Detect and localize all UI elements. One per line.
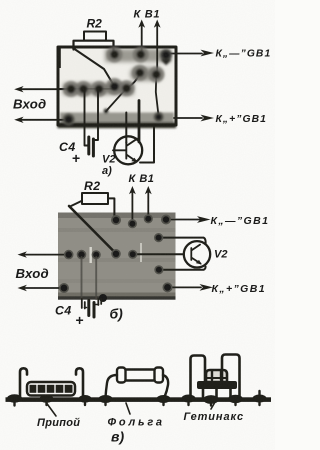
wire pad D to pad G — [127, 73, 140, 89]
R2 body (B) — [82, 193, 108, 204]
component 3 left staple — [191, 356, 206, 398]
arrow К В1 #2 (A) — [156, 24, 158, 75]
resistor R2 body — [84, 32, 106, 41]
Вход arrow top (A) — [20, 88, 72, 90]
R2 leads (B) — [70, 201, 83, 207]
board B bottom dark band — [58, 293, 176, 300]
foot pad small — [104, 109, 109, 114]
V2 circle (A) — [114, 136, 142, 164]
V2 symbol inside (A) — [113, 139, 137, 162]
component 2 left lead — [106, 375, 118, 397]
arrow К В1 #1 (A) — [141, 24, 143, 55]
board B texture stripes — [58, 213, 176, 219]
arrow К„+"GB1 (A) — [174, 117, 202, 119]
C4 leads (A) — [85, 91, 99, 146]
pads bottom edge — [63, 114, 75, 126]
V2 circle (B) — [184, 241, 210, 267]
resistor R2 leads — [74, 41, 114, 53]
V2 base wire (B) — [133, 253, 184, 255]
V2 emitter bracket (A) — [140, 126, 154, 163]
wire kinked from top edge to pad F — [73, 48, 115, 87]
pads middle row — [63, 81, 79, 97]
pads A top row — [63, 47, 172, 126]
board A top pad halo band — [105, 49, 171, 62]
component 3 leads — [203, 389, 231, 397]
board B gray body — [58, 213, 176, 300]
lead ticks below — [15, 401, 260, 406]
component 3 dome — [206, 370, 227, 382]
Вход arrow bottom (B) — [23, 287, 64, 289]
board A left edge thick top — [57, 46, 61, 68]
board A bottom edge — [58, 123, 177, 128]
V2 symbol inside (B) — [191, 245, 200, 264]
component 3 right staple — [222, 355, 240, 398]
arrow К„—"GB1 (B) — [166, 219, 203, 221]
board A halo around pads D,E — [130, 67, 163, 81]
V2 emitter wire (B) — [159, 267, 206, 270]
R2 right lead (B) — [108, 198, 114, 219]
V2 leads up (A) — [125, 113, 127, 144]
component 1 right lead — [76, 368, 83, 397]
Вход arrow top (B) — [23, 254, 69, 256]
arrow К„—"GB1 (A) — [168, 53, 202, 55]
pad T3 + dark blob — [160, 49, 172, 61]
pads D,E — [132, 65, 148, 81]
board A outline — [58, 47, 176, 125]
pads (B) — [111, 215, 121, 225]
component 2: resistor body — [124, 370, 156, 381]
Вход arrow bottom (A) — [20, 119, 69, 121]
arrow К„+"GB1 (B) — [168, 286, 202, 288]
component 2 right lead — [163, 375, 168, 397]
wire pad E down to pad B2 — [156, 75, 159, 117]
pointer Гетинакс — [211, 403, 215, 409]
right stub — [258, 391, 260, 398]
white scratch streaks — [90, 247, 92, 263]
component 3: transistor flange — [197, 381, 237, 389]
board A middle pad halo band — [63, 83, 134, 95]
solder bumps — [7, 394, 22, 402]
wire pad G to foot — [106, 88, 127, 111]
arrow К В1 #2 (B) — [147, 191, 149, 219]
R2 diagonal lead to pad (B) — [69, 206, 116, 254]
arrow К В1 #1 (B) — [131, 191, 133, 224]
C4 plates (B) — [89, 301, 94, 318]
C4 plates (A) — [89, 137, 94, 156]
V2 collector wire (B) — [159, 238, 206, 247]
pointer Припой — [47, 403, 57, 416]
component 1: capacitor body — [27, 382, 75, 396]
wire middle row through pads — [58, 88, 114, 90]
board A bottom gray band — [60, 113, 174, 125]
pointer Фольга — [126, 403, 130, 414]
C4 leads (B) — [82, 257, 97, 299]
board baseline — [6, 397, 272, 402]
board A border — [58, 47, 176, 125]
component 1 left lead — [20, 368, 27, 397]
